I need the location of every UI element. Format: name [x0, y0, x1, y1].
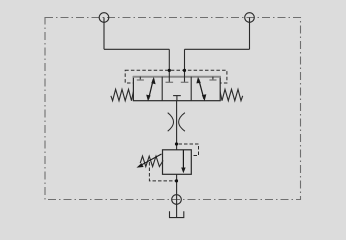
wire relief valve to tank — [176, 174, 178, 217]
tank symbol — [170, 211, 184, 217]
enclosure boundary (dash-dot) — [45, 18, 301, 200]
right spring — [220, 89, 243, 100]
pilot dashed line to relief valve — [179, 144, 199, 156]
port P2 circle — [245, 13, 255, 23]
wire horizontal right branch — [185, 48, 250, 50]
orifice right arc — [179, 113, 185, 132]
node B junction dot — [183, 69, 186, 72]
valve V1 body — [133, 77, 220, 101]
drain dashed line from spring chamber — [149, 162, 176, 181]
adjustment arrow — [140, 154, 162, 166]
wire horizontal left branch — [104, 48, 169, 50]
wire from port P1 down — [103, 18, 105, 50]
wire down to node A — [168, 49, 170, 70]
node A junction dot — [168, 69, 171, 72]
node A stub into valve — [168, 70, 170, 82]
valve cell divider 2 — [190, 77, 192, 101]
left spring — [111, 89, 133, 100]
wire down to node B — [184, 49, 186, 70]
relief valve spring — [140, 156, 163, 167]
wire valve bottom to orifice and node C — [176, 101, 178, 150]
right cell blocked port T — [212, 77, 214, 80]
valve V1 top edge — [133, 76, 221, 78]
orifice left arc — [168, 113, 174, 132]
node D junction dot — [175, 179, 178, 182]
left cell blocked port T — [139, 77, 141, 80]
valve cell divider 1 — [161, 77, 163, 101]
node B stub into valve — [184, 70, 186, 82]
center cell bottom blocked port T — [173, 95, 181, 97]
pilot dashed box — [125, 70, 227, 83]
relief valve R1 body — [163, 150, 192, 175]
port P3 circle — [172, 195, 182, 205]
relief valve flow arrow — [182, 150, 184, 170]
right cell flow arrow — [199, 79, 204, 99]
node C junction dot — [175, 142, 178, 145]
left cell flow arrow — [149, 79, 154, 99]
port P1 circle — [99, 13, 109, 23]
wire from port P2 down — [249, 18, 251, 50]
